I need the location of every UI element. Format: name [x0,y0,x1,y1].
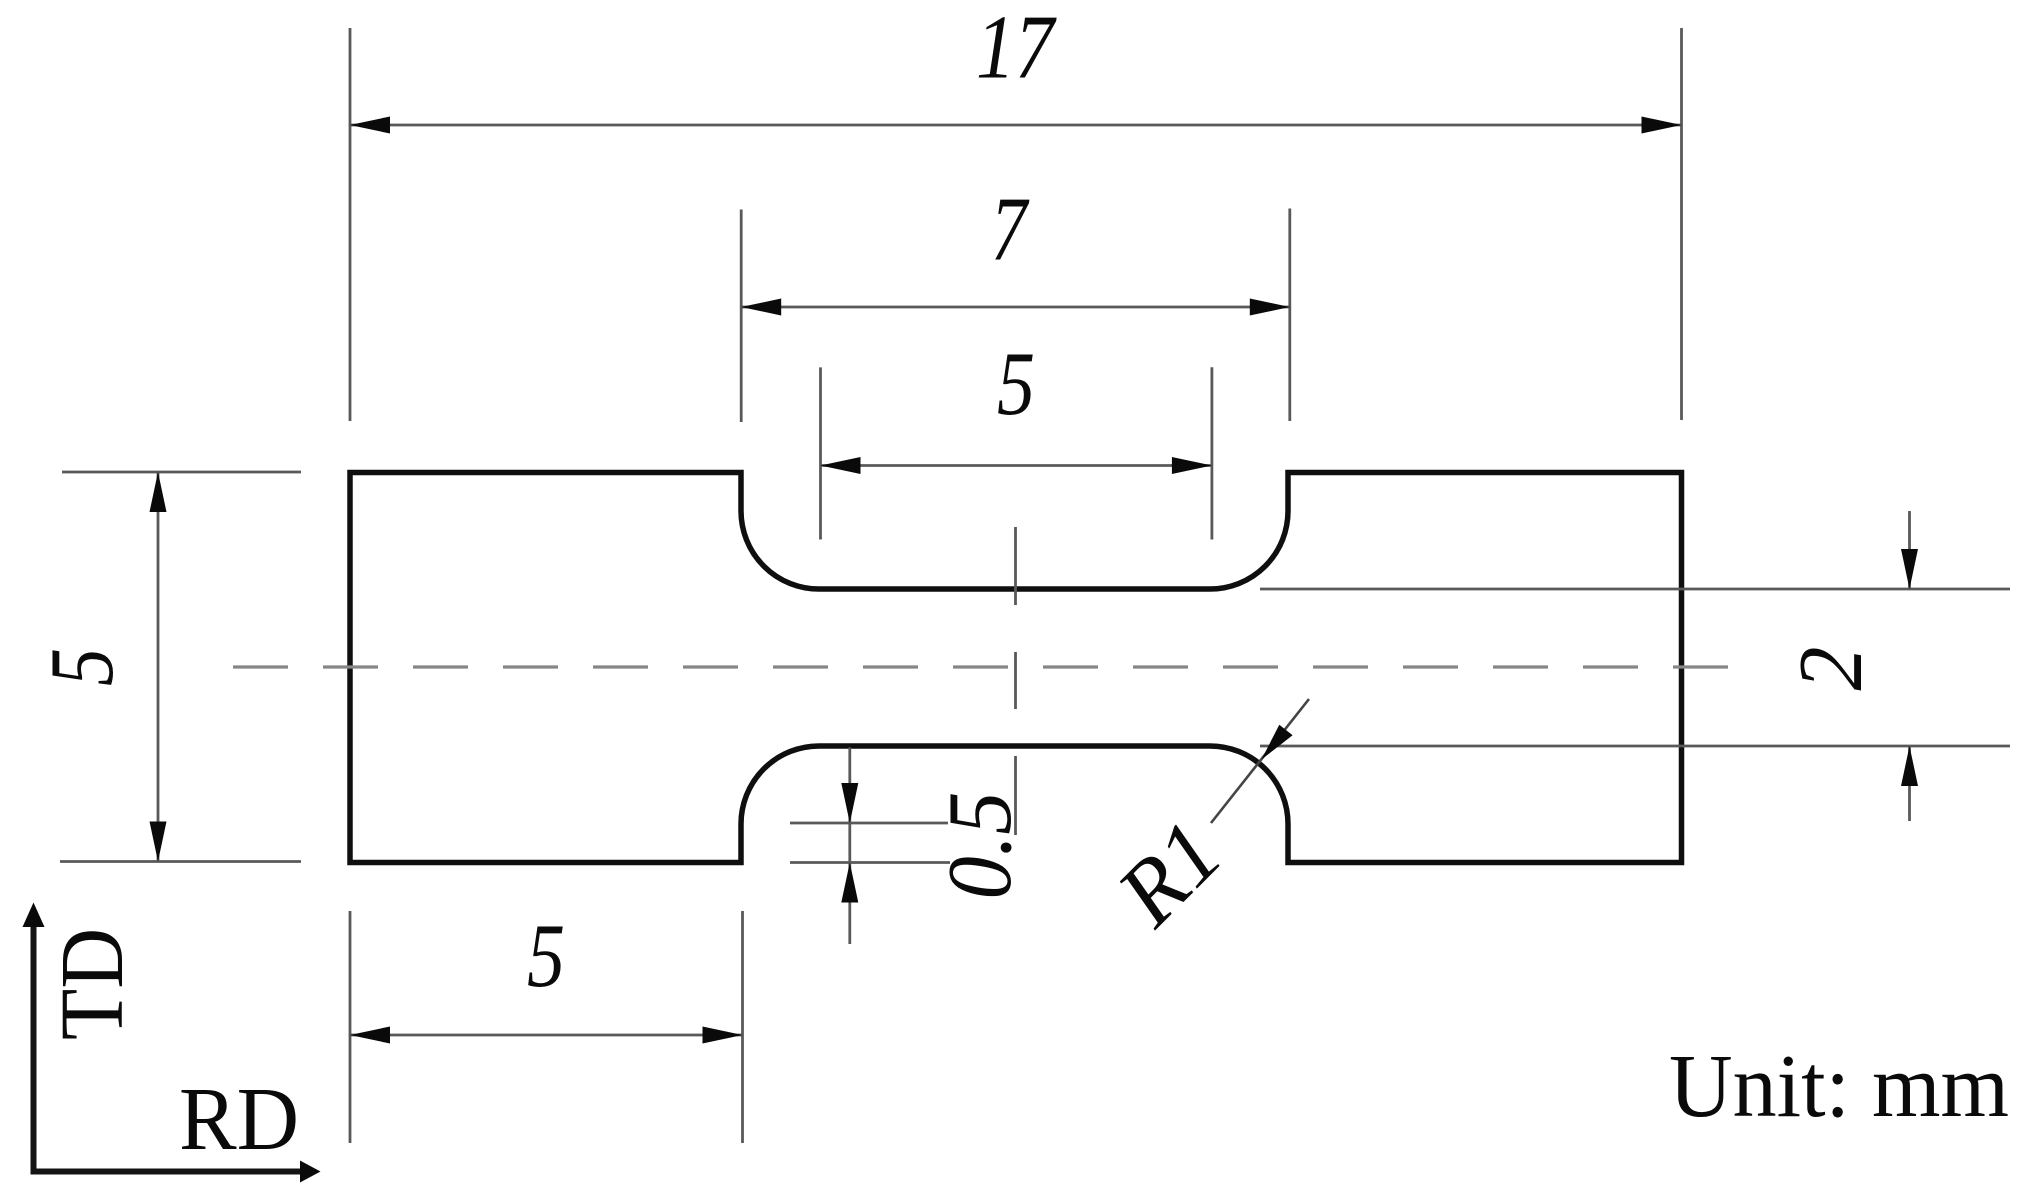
svg-text:5: 5 [527,905,565,1006]
radius leader R1 [1097,699,1309,945]
centerline [233,665,1733,668]
dimension 5 bottom grip [350,905,743,1143]
svg-text:2: 2 [1780,647,1881,691]
unit note [1669,1037,2009,1136]
svg-text:0.5: 0.5 [929,792,1030,900]
svg-text:Unit: mm: Unit: mm [1669,1037,2009,1136]
dimension 2 right [1260,511,2010,821]
center mark [1014,527,1017,835]
dimension 5 left height [31,472,301,862]
svg-text:TD: TD [43,928,142,1040]
svg-text:RD: RD [179,1070,299,1169]
TD axis arrow [23,903,143,1175]
dimension 5 gauge [821,333,1212,540]
dimension 0.5 [790,747,1030,944]
dimension 7 [741,179,1290,423]
svg-text:17: 17 [976,0,1057,98]
specimen outline [350,473,1682,863]
svg-text:5: 5 [31,648,132,686]
RD axis arrow [31,1070,321,1183]
svg-text:5: 5 [997,333,1035,434]
svg-text:7: 7 [991,179,1030,280]
dimension 17 [350,0,1682,421]
